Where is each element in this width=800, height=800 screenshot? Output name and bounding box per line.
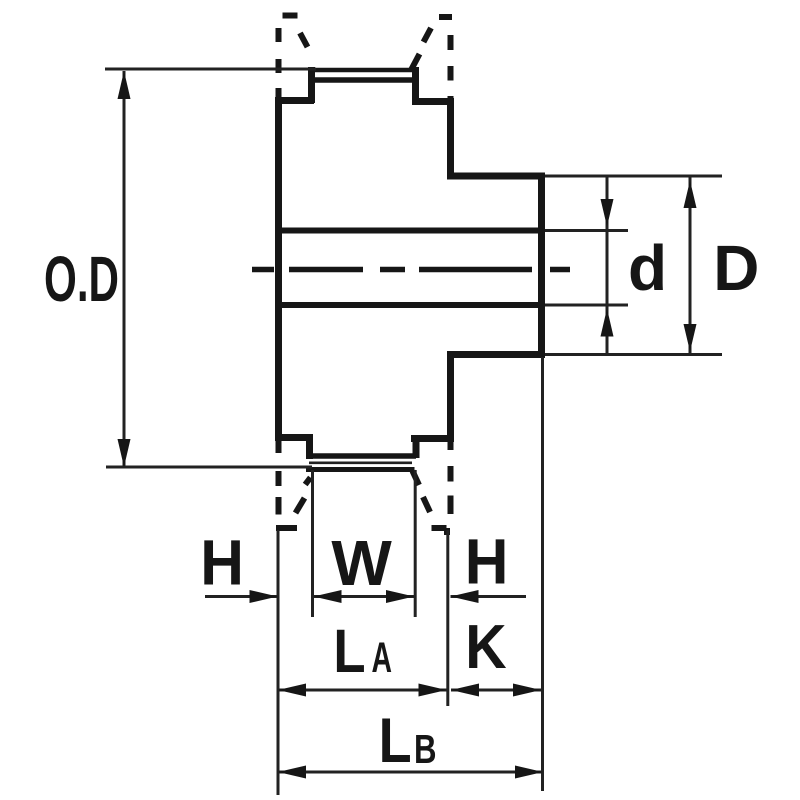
O.D top extension line xyxy=(105,68,316,71)
W dimension line xyxy=(313,590,415,603)
flange bottom-left dashed outline xyxy=(276,441,311,528)
center line dash-dot xyxy=(252,267,570,273)
pulley body top-left surface xyxy=(275,97,314,104)
LA dimension line xyxy=(278,684,448,697)
tooth top outer line xyxy=(309,68,416,73)
bore bottom extension line xyxy=(545,304,628,307)
flange bottom-right dashed outline xyxy=(423,441,451,535)
H left dimension arrow xyxy=(205,590,278,603)
tooth step top-left xyxy=(308,67,315,103)
svg-text:W: W xyxy=(331,527,392,599)
bore top extension line xyxy=(545,229,628,232)
pulley body left edge xyxy=(275,98,282,441)
K dimension line xyxy=(451,684,541,697)
d dimension line xyxy=(601,177,614,355)
pulley body top-right surface xyxy=(412,98,454,105)
svg-text:D: D xyxy=(713,232,759,304)
hub right edge xyxy=(538,173,545,359)
extension line x448 body right xyxy=(446,530,449,706)
flange top-right dashed outline xyxy=(424,17,453,104)
tooth bottom inner line xyxy=(310,453,416,459)
bore top line xyxy=(279,228,542,234)
D dimension line xyxy=(684,177,697,355)
svg-text:L: L xyxy=(379,706,412,776)
pulley body right edge upper xyxy=(447,98,454,179)
svg-text:K: K xyxy=(465,613,507,682)
svg-text:H: H xyxy=(200,527,244,599)
extension line x312 tooth step xyxy=(311,470,314,617)
tooth top inner line xyxy=(312,77,416,83)
pulley body right edge lower xyxy=(447,351,454,442)
flange solid tilt top-right xyxy=(411,54,420,71)
tooth bottom thin pitch line xyxy=(309,461,412,464)
tooth step top-right xyxy=(412,67,419,104)
bore bottom line xyxy=(279,302,542,308)
pulley body bottom-left surface xyxy=(275,434,313,441)
LB dimension line xyxy=(278,766,543,779)
hub bottom extension line xyxy=(545,353,722,356)
svg-text:B: B xyxy=(414,726,437,772)
svg-text:O.D: O.D xyxy=(44,243,119,315)
flange solid tilt bottom-right xyxy=(413,471,420,485)
svg-text:A: A xyxy=(372,634,393,682)
flange top-left dashed outline xyxy=(279,16,308,99)
svg-text:d: d xyxy=(628,232,667,304)
O.D bottom extension line xyxy=(106,466,312,469)
tooth step bottom-left xyxy=(306,435,313,459)
svg-text:H: H xyxy=(465,526,509,598)
pulley body bottom-right surface xyxy=(411,435,454,442)
svg-text:L: L xyxy=(333,617,365,685)
extension line x415 tooth step xyxy=(414,470,417,617)
extension line x542 hub right xyxy=(541,357,544,791)
hub top edge xyxy=(447,173,545,180)
tooth bottom outer line xyxy=(306,467,415,472)
tooth step bottom-right xyxy=(413,436,420,458)
H right dimension arrow xyxy=(451,590,527,603)
extension line x278 below body xyxy=(277,530,280,795)
hub bottom edge xyxy=(447,351,545,358)
O.D dimension line xyxy=(118,71,131,467)
hub top extension line xyxy=(545,175,722,178)
